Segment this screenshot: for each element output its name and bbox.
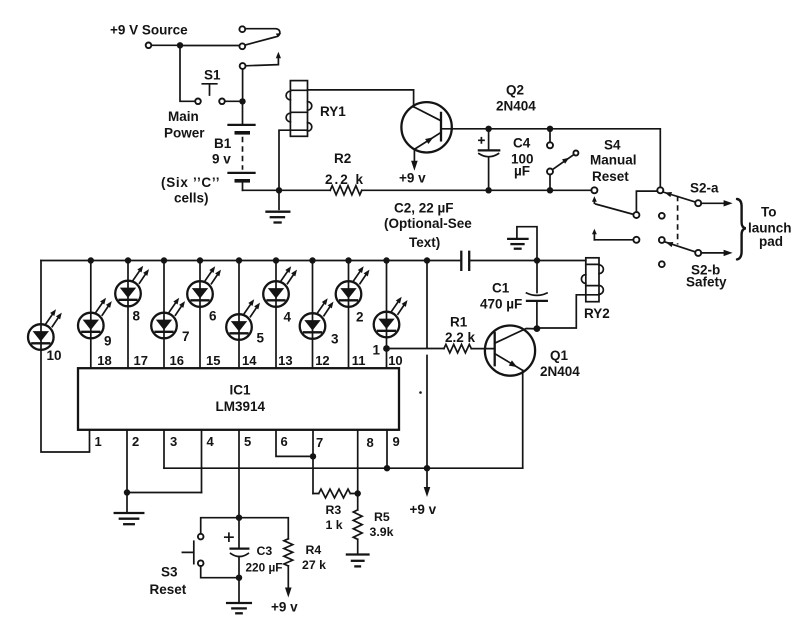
wire Q2 base to S2 area	[441, 129, 660, 188]
wire pin 4 lead	[201, 430, 203, 493]
junction dot LED1 rail	[383, 257, 389, 263]
label pin 3 bottom	[170, 434, 177, 449]
ground pin 2	[115, 493, 144, 525]
svg-text:220 µF: 220 µF	[246, 561, 283, 575]
svg-text:13: 13	[278, 353, 292, 368]
svg-text:(Optional-See: (Optional-See	[384, 216, 472, 231]
resistor R5	[353, 494, 362, 554]
svg-text:14: 14	[242, 353, 257, 368]
svg-text:9: 9	[393, 434, 400, 449]
svg-text:27 k: 27 k	[302, 558, 326, 572]
svg-text:+9 v: +9 v	[271, 600, 298, 615]
wire LED9 column to pin	[90, 261, 92, 369]
junction dot rail +9v drop	[424, 257, 430, 263]
svg-text:C1: C1	[492, 281, 510, 296]
ground battery	[267, 190, 290, 222]
svg-text:4: 4	[284, 310, 292, 325]
label +9v under Q2	[399, 171, 426, 186]
junction dot +9V source node	[177, 42, 183, 48]
transistor Q1	[485, 326, 535, 376]
label R5 3.9k	[370, 510, 394, 539]
arrow +9v supply tap	[424, 468, 431, 497]
pushbutton S1 plunger	[202, 84, 217, 95]
svg-text:2: 2	[356, 310, 364, 325]
label To launch pad	[748, 205, 792, 250]
svg-text:µF: µF	[514, 164, 530, 179]
wire LED8 column to pin	[127, 261, 129, 369]
svg-text:4: 4	[207, 434, 215, 449]
svg-text:2N404: 2N404	[496, 99, 536, 114]
switch S2-a moving contact	[695, 200, 701, 206]
label 9	[104, 334, 112, 349]
label Main Power	[164, 109, 205, 141]
wire Q1 emitter riser	[522, 370, 524, 468]
junction dot LED6 rail	[197, 257, 203, 263]
LED D2	[336, 266, 370, 307]
svg-text:3: 3	[170, 434, 177, 449]
label pin 16 top	[170, 353, 184, 368]
junction dot LED2 rail	[345, 257, 351, 263]
svg-text:10: 10	[388, 353, 402, 368]
svg-text:RY1: RY1	[320, 104, 346, 119]
svg-text:C3: C3	[257, 544, 273, 558]
wire pin 9 lead	[386, 430, 388, 468]
battery B1	[229, 101, 255, 190]
wire R1 to Q1 base	[471, 348, 494, 350]
junction dot S4 top	[547, 126, 553, 132]
junction dot S4 bottom	[547, 187, 553, 193]
label 1	[373, 343, 381, 358]
label C2 optional	[384, 201, 472, 251]
junction dot LED4 rail	[273, 257, 279, 263]
junction dot pin 6 pin 7	[310, 453, 316, 459]
wire LED1 column to pin	[386, 261, 388, 369]
label pin 2 bottom	[132, 434, 139, 449]
svg-text:R2: R2	[334, 151, 351, 166]
junction dot C1 top node	[534, 257, 540, 263]
svg-text:3.9k: 3.9k	[370, 525, 394, 539]
label 7	[182, 329, 190, 344]
switch S2-b moving contact	[695, 250, 701, 256]
svg-text:S4: S4	[604, 138, 621, 153]
svg-text:S2-a: S2-a	[690, 181, 719, 196]
switch S2-b blade	[664, 242, 695, 252]
svg-text:RY2: RY2	[584, 306, 610, 321]
brace to launch pad	[737, 199, 746, 259]
switch S2-a lower throw contact	[659, 213, 665, 219]
node +9V source terminal	[146, 43, 152, 49]
wire junction down to S1 left contact	[180, 45, 195, 101]
junction dot +9v tap	[424, 465, 430, 471]
svg-text:Main: Main	[168, 109, 199, 124]
relay RY2 contact a throw arrow	[592, 196, 597, 203]
ground C3	[227, 578, 251, 614]
label pin 5 bottom	[244, 434, 251, 449]
svg-text:11: 11	[352, 353, 366, 368]
pushbutton S3 plunger	[182, 541, 193, 563]
wire pin 8 lead	[357, 430, 359, 494]
label pin 7 bottom	[316, 435, 323, 450]
wire junction to RY1 contact	[180, 45, 239, 47]
svg-text:1 k: 1 k	[326, 518, 343, 532]
resistor R1	[444, 344, 471, 352]
junction dot Q2 base C4	[485, 126, 491, 132]
switch S2-b lower throw contact	[659, 261, 665, 267]
svg-text:8: 8	[133, 309, 141, 324]
label C1 470uF	[480, 281, 522, 312]
svg-text:R5: R5	[374, 510, 390, 524]
wire RY1 coil to Q2 collector	[308, 90, 414, 107]
label S3 Reset	[150, 565, 187, 598]
capacitor C2	[461, 252, 469, 270]
label pin 6 bottom	[281, 434, 288, 449]
wire RY1 armature to S1 junction	[242, 69, 244, 101]
svg-text:B1: B1	[214, 136, 232, 151]
relay RY1 armature blade with arrow	[246, 52, 281, 66]
relay RY1 contact blade curve	[245, 29, 281, 45]
label RY2	[584, 306, 610, 321]
label pin 18 top	[97, 353, 111, 368]
svg-text:3: 3	[331, 332, 339, 347]
label B1 9v	[212, 136, 232, 167]
resistor R4	[284, 539, 293, 566]
arrow R4 +9v	[285, 566, 292, 598]
junction dot pin 2	[124, 489, 130, 495]
label S1	[204, 68, 221, 83]
LED D6	[187, 266, 221, 307]
junction dot battery ground node	[276, 187, 282, 193]
junction dot LED9 rail	[88, 257, 94, 263]
junction dot LED8 rail	[125, 257, 131, 263]
label R1 2.2k	[445, 315, 476, 346]
svg-text:2N404: 2N404	[540, 364, 580, 379]
switch S1 right contact	[219, 99, 225, 105]
svg-text:S1: S1	[204, 68, 221, 83]
svg-text:+9 v: +9 v	[399, 171, 426, 186]
pushbutton S3 contacts	[198, 534, 204, 566]
svg-text:5: 5	[257, 331, 265, 346]
label +9v mid	[410, 502, 437, 517]
LED D7	[151, 298, 185, 339]
label R2 2.2k	[325, 151, 365, 187]
svg-text:2.2 k: 2.2 k	[445, 330, 476, 345]
wire LED7 column to pin	[163, 261, 165, 369]
wire pin2 to pin4 node	[127, 492, 202, 494]
label C3 220uF	[246, 544, 283, 575]
svg-text:cells): cells)	[174, 191, 209, 206]
label S2-a	[690, 181, 719, 196]
svg-text:Q1: Q1	[550, 348, 569, 363]
label 10	[47, 348, 62, 363]
wire LED anode rail	[41, 260, 460, 262]
label C4 100 uF	[511, 136, 534, 179]
wire LED10 column and pin 1	[41, 261, 90, 453]
junction dot LED1 cathode R1	[383, 345, 390, 352]
ground R5	[347, 555, 369, 567]
resistor R3	[313, 489, 358, 498]
wire S1 to battery junction	[225, 100, 243, 102]
label IC1 LM3914	[216, 383, 266, 415]
svg-text:7: 7	[316, 435, 323, 450]
relay RY1 upper contact circle	[239, 26, 245, 32]
svg-text:470 µF: 470 µF	[480, 297, 522, 312]
label pin 13 top	[278, 353, 292, 368]
svg-text:R3: R3	[326, 503, 342, 517]
wire LED2 column to pin	[348, 261, 350, 369]
svg-text:C4: C4	[513, 136, 531, 151]
switch S2-b fixed contact	[659, 237, 665, 243]
relay RY1 coil	[286, 81, 312, 137]
svg-text:C2, 22 µF: C2, 22 µF	[394, 201, 454, 216]
wire ground rail	[243, 189, 592, 191]
svg-text:7: 7	[182, 329, 190, 344]
LED D10	[28, 309, 62, 350]
svg-text:8: 8	[367, 435, 374, 450]
relay RY1 middle contact circle	[239, 43, 245, 49]
label R4 27k	[302, 543, 326, 572]
arrow S2-b to launch pad	[701, 250, 732, 256]
svg-text:Power: Power	[164, 126, 205, 141]
label 5	[257, 331, 265, 346]
junction dot LED5 rail	[236, 257, 242, 263]
wire LED6 column to pin	[199, 261, 201, 369]
svg-text:2.2 k: 2.2 k	[325, 172, 365, 187]
svg-text:17: 17	[134, 353, 148, 368]
junction dot pin5 C3 node	[236, 515, 242, 521]
junction dot C3 bottom	[236, 575, 242, 581]
wire LED5 column to pin	[238, 261, 240, 369]
label pin 10 top	[388, 353, 402, 368]
svg-text:16: 16	[170, 353, 184, 368]
wire pin 2 lead	[126, 430, 128, 493]
label pin 14 top	[242, 353, 257, 368]
LED D4	[263, 266, 297, 307]
wire RY2 coil bottom	[537, 295, 586, 328]
switch S4	[547, 129, 578, 191]
capacitor C1	[527, 261, 548, 326]
wire ground node to RY1 coil	[279, 130, 290, 190]
svg-text:+9 v: +9 v	[410, 502, 437, 517]
wire R4 top	[239, 518, 288, 539]
svg-text:Q2: Q2	[506, 83, 524, 98]
wire C2 to RY2 coil	[471, 260, 586, 262]
label six C cells	[161, 175, 220, 206]
relay RY2 contact b throw arrow	[592, 229, 597, 240]
svg-text:10: 10	[47, 348, 62, 363]
arrow Q2 emitter to +9v	[411, 149, 418, 171]
svg-text:12: 12	[315, 353, 329, 368]
switch S2-a fixed contact	[657, 187, 663, 193]
label Q1 2N404	[540, 348, 580, 379]
svg-text:15: 15	[206, 353, 220, 368]
label pin 17 top	[134, 353, 148, 368]
svg-text:9: 9	[104, 334, 112, 349]
svg-text:R1: R1	[450, 315, 468, 330]
wire pin 5 lead	[238, 430, 240, 518]
ground C2 node	[508, 227, 537, 261]
label pin 8 bottom	[367, 435, 374, 450]
relay RY2 contact b moving circle	[633, 237, 639, 243]
wire pin 6 to pin 7	[276, 430, 313, 457]
label S2-b Safety	[686, 263, 727, 290]
junction dot C4 bottom	[485, 187, 491, 193]
label pin 9 bottom	[393, 434, 400, 449]
label pin 12 top	[315, 353, 329, 368]
label 3	[331, 332, 339, 347]
svg-text:Text): Text)	[409, 235, 440, 250]
svg-text:Safety: Safety	[686, 275, 727, 290]
LED D9	[78, 298, 112, 339]
junction dot R3 R5 pin8	[355, 490, 361, 496]
label Q2 2N404	[496, 83, 536, 114]
wire RY2 contact b	[594, 239, 633, 241]
svg-text:18: 18	[97, 353, 111, 368]
svg-text:6: 6	[281, 434, 288, 449]
junction dot S1 battery RY1	[239, 98, 245, 104]
wire RY2 contact a to S2-a	[636, 191, 657, 212]
label pin 15 top	[206, 353, 220, 368]
junction dot LED7 rail	[161, 257, 167, 263]
wire pin 3 lead	[163, 430, 165, 468]
label +9 V Source	[110, 23, 188, 38]
wire LED4 column to pin	[275, 261, 277, 369]
wire +9v rail	[164, 467, 523, 469]
switch S2-a blade	[663, 192, 695, 202]
svg-text:LM3914: LM3914	[216, 399, 266, 414]
switch S1 left contact	[195, 99, 201, 105]
svg-text:5: 5	[244, 434, 251, 449]
label S4 Manual Reset	[590, 138, 637, 185]
wire +9v drop line	[426, 261, 428, 469]
svg-text:9 v: 9 v	[212, 152, 231, 167]
transistor Q2	[401, 102, 451, 152]
svg-text:Manual: Manual	[590, 153, 637, 168]
svg-text:+9 V Source: +9 V Source	[110, 23, 188, 38]
label pin 11 top	[352, 353, 366, 368]
wire source terminal to junction	[152, 44, 177, 46]
wire S3 top loop	[201, 518, 239, 534]
LED D3	[300, 298, 334, 339]
label +9v bottom	[271, 600, 298, 615]
svg-text:1: 1	[95, 434, 102, 449]
capacitor C3	[225, 533, 249, 578]
capacitor C4	[479, 129, 499, 191]
relay RY2 contact a fixed circle	[591, 187, 597, 193]
svg-text:1: 1	[373, 343, 381, 358]
relay RY2 contact a moving circle	[633, 212, 639, 218]
svg-text:To: To	[761, 205, 777, 220]
svg-text:Reset: Reset	[592, 169, 629, 184]
svg-text:(Six ’’C’’: (Six ’’C’’	[161, 175, 220, 190]
junction dot pin 9 rail	[384, 465, 390, 471]
speck	[419, 391, 422, 394]
svg-text:Reset: Reset	[150, 582, 187, 597]
svg-text:R4: R4	[306, 543, 322, 557]
arrow S2-a to launch pad	[701, 200, 732, 206]
svg-text:S3: S3	[161, 565, 178, 580]
junction dot Q1 collector node	[534, 325, 541, 332]
LED D5	[226, 299, 260, 340]
label 4	[284, 310, 292, 325]
wire S3 bottom loop	[201, 566, 239, 578]
gang line S2	[677, 196, 679, 245]
wire pin 7 lead	[312, 430, 314, 494]
junction dot LED3 rail	[309, 257, 315, 263]
label 8	[133, 309, 141, 324]
LED D1	[374, 297, 408, 338]
relay RY1 armature contact circle	[240, 63, 246, 69]
label pin 4 bottom	[207, 434, 215, 449]
label R3 1k	[326, 503, 343, 532]
resistor R2	[330, 186, 362, 195]
label pin 1 bottom	[95, 434, 102, 449]
op-amp IC1 LM3914 box	[78, 368, 399, 430]
LED D8	[115, 266, 149, 307]
label RY1	[320, 104, 346, 119]
svg-text:6: 6	[209, 309, 217, 324]
svg-text:2: 2	[132, 434, 139, 449]
wire LED1 node to R1	[387, 348, 444, 350]
label 2	[356, 310, 364, 325]
svg-text:pad: pad	[759, 234, 783, 249]
label 6	[209, 309, 217, 324]
wire LED3 column to pin	[312, 261, 314, 369]
relay RY2 coil	[581, 258, 603, 302]
svg-text:IC1: IC1	[230, 383, 252, 398]
relay RY2 contact a blade	[596, 204, 634, 214]
wire C3 top lead	[238, 518, 240, 549]
